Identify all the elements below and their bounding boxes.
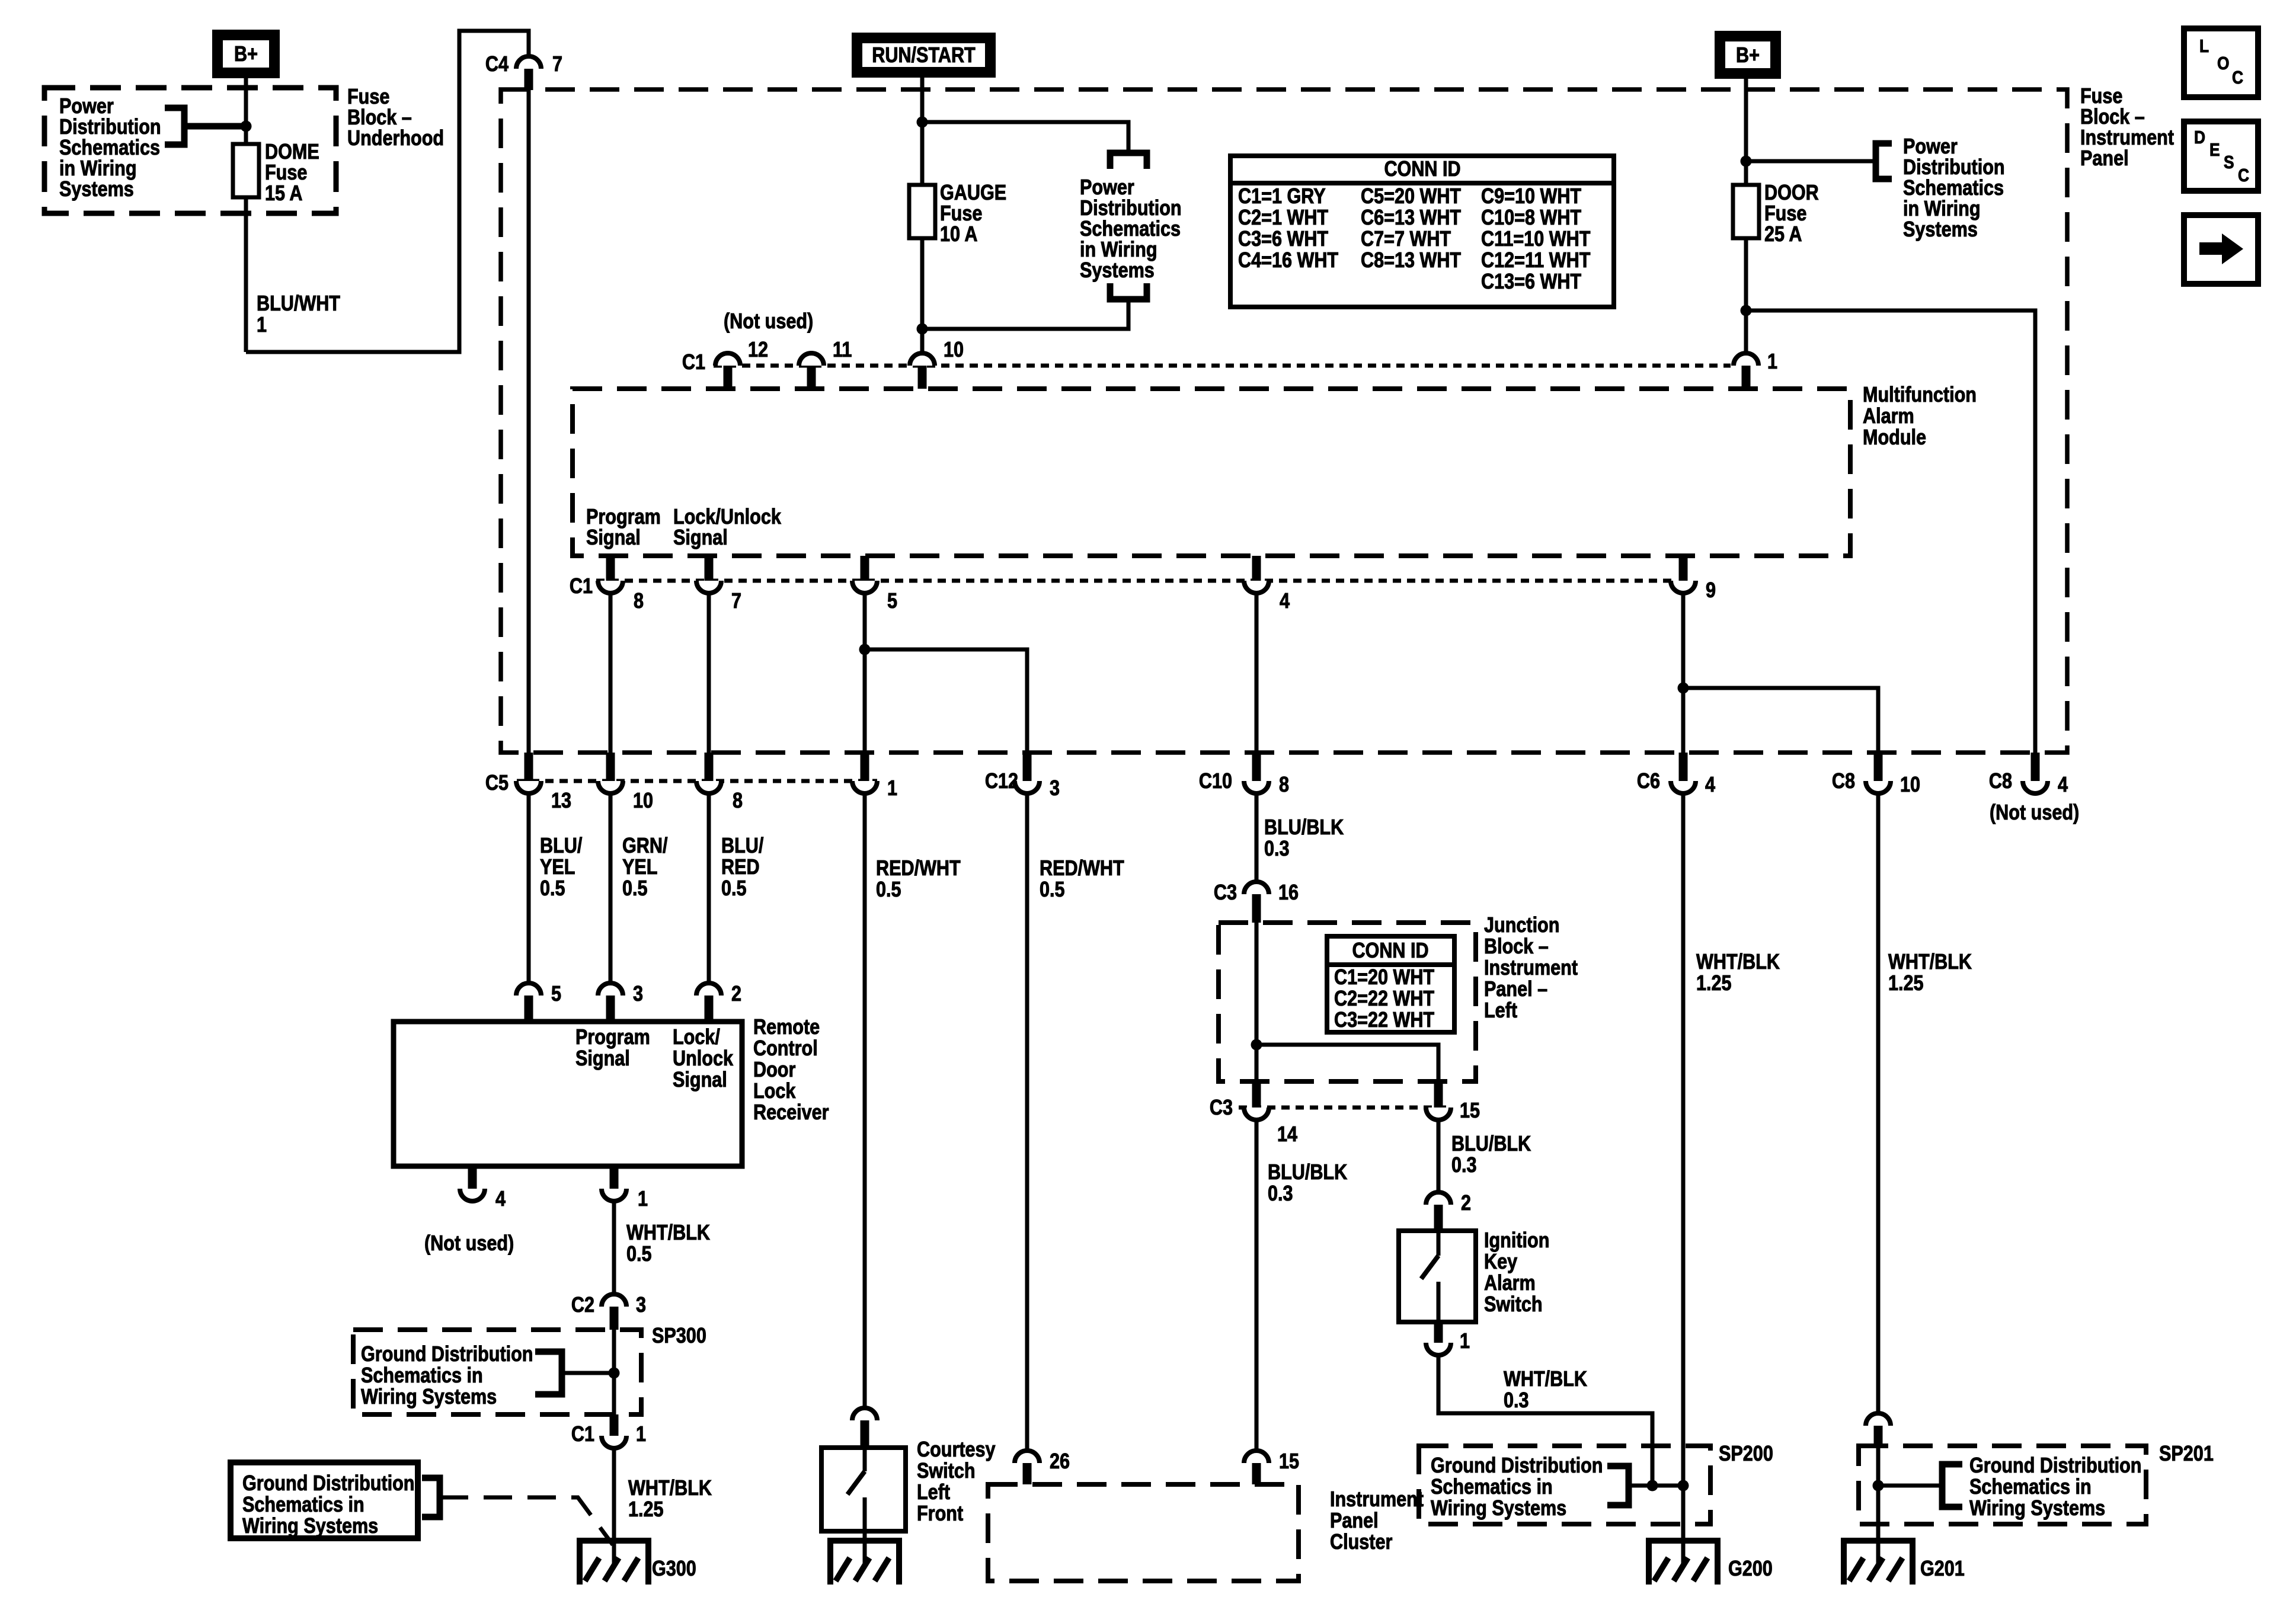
label wire BLU/RED 0.5 xyxy=(721,834,763,901)
svg-text:Fuse: Fuse xyxy=(940,202,982,226)
connector C1 pin 8 xyxy=(598,556,644,613)
svg-text:YEL: YEL xyxy=(622,856,657,879)
bracket to power distribution (door) xyxy=(1876,140,1892,183)
svg-text:1.25: 1.25 xyxy=(1888,972,1924,996)
wire C4 column down to C5-13 xyxy=(527,90,531,753)
svg-text:Wiring Systems: Wiring Systems xyxy=(1431,1497,1566,1521)
svg-text:10: 10 xyxy=(944,338,964,362)
svg-text:0.3: 0.3 xyxy=(1451,1154,1477,1177)
svg-text:Schematics in: Schematics in xyxy=(1431,1475,1553,1499)
svg-text:Instrument: Instrument xyxy=(1484,956,1578,980)
label wire BLU/BLK 0.3 (pin15) xyxy=(1451,1132,1531,1177)
svg-text:BLU/BLK: BLU/BLK xyxy=(1451,1132,1531,1156)
wire C10-8 to C3-16 xyxy=(1255,793,1259,883)
svg-text:Schematics: Schematics xyxy=(1080,217,1181,241)
svg-text:1: 1 xyxy=(887,777,897,801)
svg-text:0.5: 0.5 xyxy=(622,877,648,901)
box courtesy switch xyxy=(821,1448,906,1531)
svg-text:10 A: 10 A xyxy=(940,223,977,247)
connector C1 pin 5 xyxy=(852,556,897,613)
svg-text:YEL: YEL xyxy=(540,856,575,879)
connector C3 pin 16 xyxy=(1214,881,1299,923)
svg-text:C6=13 WHT: C6=13 WHT xyxy=(1361,206,1462,230)
svg-text:Key: Key xyxy=(1484,1250,1517,1274)
svg-text:5: 5 xyxy=(551,982,561,1006)
svg-text:C12=11 WHT: C12=11 WHT xyxy=(1481,249,1591,273)
svg-text:G300: G300 xyxy=(652,1557,696,1581)
svg-text:C8: C8 xyxy=(1989,770,2012,793)
svg-text:0.5: 0.5 xyxy=(540,877,565,901)
svg-text:S: S xyxy=(2224,152,2234,172)
dotted line connector C1 (module top) xyxy=(714,364,1731,368)
svg-text:1: 1 xyxy=(1460,1330,1470,1353)
svg-text:E: E xyxy=(2209,140,2220,160)
svg-text:C4: C4 xyxy=(485,53,509,76)
svg-text:Front: Front xyxy=(917,1502,963,1526)
svg-text:WHT/BLK: WHT/BLK xyxy=(628,1477,712,1500)
svg-text:Program: Program xyxy=(575,1026,650,1049)
wire receiver pin1 to C2-3 xyxy=(612,1201,616,1295)
svg-text:Distribution: Distribution xyxy=(59,116,161,139)
label courtesy switch left front xyxy=(917,1438,996,1526)
svg-text:RED/WHT: RED/WHT xyxy=(876,857,961,881)
box ground distribution schematics xyxy=(231,1462,418,1538)
svg-text:(Not used): (Not used) xyxy=(424,1232,514,1256)
svg-text:1: 1 xyxy=(636,1423,646,1446)
svg-text:Wiring Systems: Wiring Systems xyxy=(1969,1497,2105,1521)
table CONN ID (fuse block) xyxy=(1230,156,1614,307)
wire C6-4 to G200 xyxy=(1681,793,1686,1563)
wire bracket to SP200 junction xyxy=(1629,1484,1683,1488)
power node B+ (underhood) xyxy=(212,30,280,78)
label ground distribution (SP201) xyxy=(1969,1454,2142,1521)
ground courtesy switch xyxy=(830,1538,899,1585)
svg-text:SP200: SP200 xyxy=(1719,1442,1773,1466)
label wire BLU/BLK 0.3 (pin14) xyxy=(1268,1161,1347,1206)
svg-text:15 A: 15 A xyxy=(265,182,302,206)
svg-text:Lock: Lock xyxy=(753,1080,796,1103)
label junction block instrument panel left xyxy=(1484,914,1578,1023)
svg-text:BLU/: BLU/ xyxy=(721,834,763,858)
wire branch to C12 xyxy=(865,649,1027,753)
svg-text:Signal: Signal xyxy=(673,526,728,550)
label (Not used) C8 pin 4 xyxy=(1990,801,2079,825)
svg-text:Cluster: Cluster xyxy=(1330,1531,1392,1554)
connector C1 pin 4 xyxy=(1244,556,1290,613)
label lock/unlock signal (receiver) xyxy=(673,1026,733,1092)
label SP201 xyxy=(2159,1442,2214,1466)
icon DESC xyxy=(2184,121,2258,191)
svg-text:Door: Door xyxy=(753,1058,795,1082)
svg-text:C7=7 WHT: C7=7 WHT xyxy=(1361,228,1451,251)
svg-text:C3: C3 xyxy=(1210,1096,1233,1120)
wire C3-15 to ignition pin 2 xyxy=(1437,1120,1441,1193)
svg-text:4: 4 xyxy=(2058,773,2068,797)
svg-text:Ground Distribution: Ground Distribution xyxy=(1431,1454,1603,1478)
svg-text:Courtesy: Courtesy xyxy=(917,1438,996,1462)
svg-text:C1: C1 xyxy=(571,1423,594,1446)
wire C5-8 to receiver pin 2 xyxy=(707,793,711,985)
svg-text:0.5: 0.5 xyxy=(876,878,901,902)
dotted line connector C3 row xyxy=(1239,1106,1451,1110)
wire C5-13 to receiver pin 5 xyxy=(527,793,531,985)
svg-text:C9=10 WHT: C9=10 WHT xyxy=(1481,185,1582,209)
wire RUN/START down xyxy=(920,78,925,354)
label wire WHT/BLK 1.25 (C8) xyxy=(1888,950,1972,996)
svg-text:10: 10 xyxy=(1900,773,1920,797)
wire courtesy switch to ground xyxy=(863,1531,867,1563)
svg-text:C12: C12 xyxy=(985,770,1018,793)
svg-text:BLU/BLK: BLU/BLK xyxy=(1268,1161,1347,1185)
wire C12-3 to cluster pin 26 xyxy=(1025,793,1029,1452)
connector C1 pin 10 xyxy=(910,338,964,389)
svg-text:Receiver: Receiver xyxy=(753,1101,829,1125)
svg-text:Panel: Panel xyxy=(1330,1509,1379,1533)
connector receiver pin 3 xyxy=(598,982,643,1022)
svg-text:12: 12 xyxy=(748,338,768,362)
svg-text:RUN/START: RUN/START xyxy=(872,44,976,68)
label (Not used) pins 12 11 xyxy=(724,310,813,334)
junction pin5 branch xyxy=(859,644,871,655)
svg-text:Junction: Junction xyxy=(1484,914,1559,937)
svg-text:Ground Distribution: Ground Distribution xyxy=(242,1472,415,1496)
svg-text:25 A: 25 A xyxy=(1764,223,1802,247)
svg-text:1.25: 1.25 xyxy=(628,1498,664,1522)
svg-text:in Wiring: in Wiring xyxy=(59,157,137,181)
svg-text:Block –: Block – xyxy=(1484,935,1549,959)
svg-text:5: 5 xyxy=(887,590,897,613)
svg-text:Panel –: Panel – xyxy=(1484,978,1547,1001)
label lock/unlock signal (module) xyxy=(673,505,781,550)
label SP200 xyxy=(1719,1442,1773,1466)
svg-text:C8=13 WHT: C8=13 WHT xyxy=(1361,249,1462,273)
wire branch to power distribution bracket (door) xyxy=(1746,159,1874,164)
ground G300 xyxy=(580,1538,696,1585)
bracket to power distribution (underhood) xyxy=(165,105,184,148)
svg-text:3: 3 xyxy=(636,1294,646,1317)
label power distribution (underhood) xyxy=(59,95,161,201)
dashed box SP300 xyxy=(353,1330,641,1414)
svg-text:Underhood: Underhood xyxy=(347,127,444,151)
power node RUN/START xyxy=(852,33,996,78)
svg-text:C3: C3 xyxy=(1214,881,1237,905)
icon LOC xyxy=(2184,28,2258,97)
connector ignition pin 1 xyxy=(1426,1322,1470,1355)
connector C1 pin 7 xyxy=(696,556,741,613)
connector receiver pin 4 (not used) xyxy=(460,1166,506,1211)
svg-text:Control: Control xyxy=(753,1037,818,1061)
connector C5 pin 1 xyxy=(852,753,897,801)
svg-text:RED/WHT: RED/WHT xyxy=(1040,857,1124,881)
wire pin 9 down xyxy=(1681,593,1686,753)
wire C5-1 to courtesy switch xyxy=(863,793,867,1410)
wire SP201 to G201 xyxy=(1876,1446,1881,1563)
dashed box SP200 xyxy=(1419,1446,1710,1524)
wire branch to C8 pin 10 xyxy=(1683,688,1878,753)
svg-text:0.5: 0.5 xyxy=(626,1243,652,1266)
staple bottom (gauge power dist) xyxy=(1110,283,1147,303)
dotted line connector C1 (module bottom) xyxy=(596,579,1671,583)
svg-text:in Wiring: in Wiring xyxy=(1903,197,1981,221)
wire pin 7 down xyxy=(707,593,711,753)
svg-text:in Wiring: in Wiring xyxy=(1080,238,1157,262)
svg-text:Distribution: Distribution xyxy=(1080,197,1182,220)
svg-text:Panel: Panel xyxy=(2080,147,2129,171)
svg-text:Wiring Systems: Wiring Systems xyxy=(361,1385,497,1409)
svg-text:Program: Program xyxy=(586,505,661,529)
connector C12 pin 3 xyxy=(985,753,1060,801)
svg-text:2: 2 xyxy=(1461,1192,1471,1215)
svg-text:C11=10 WHT: C11=10 WHT xyxy=(1481,228,1591,251)
svg-text:0.5: 0.5 xyxy=(721,877,747,901)
svg-text:Signal: Signal xyxy=(575,1047,630,1071)
bracket ground distribution box xyxy=(422,1475,440,1521)
svg-text:Ground Distribution: Ground Distribution xyxy=(361,1343,533,1366)
svg-text:Distribution: Distribution xyxy=(1903,156,2005,180)
svg-text:Lock/Unlock: Lock/Unlock xyxy=(673,505,781,529)
svg-text:BLU/: BLU/ xyxy=(540,834,582,858)
svg-text:Instrument: Instrument xyxy=(2080,126,2174,150)
svg-text:C1=1 GRY: C1=1 GRY xyxy=(1238,185,1326,209)
svg-text:16: 16 xyxy=(1278,881,1299,905)
svg-text:Signal: Signal xyxy=(673,1068,727,1092)
svg-text:O: O xyxy=(2217,53,2229,73)
svg-text:C13=6 WHT: C13=6 WHT xyxy=(1481,270,1582,294)
svg-text:C6: C6 xyxy=(1637,770,1660,793)
svg-text:4: 4 xyxy=(1705,773,1715,797)
svg-text:C3=6 WHT: C3=6 WHT xyxy=(1238,228,1329,251)
svg-text:7: 7 xyxy=(552,53,562,76)
svg-text:BLU/WHT: BLU/WHT xyxy=(257,292,341,316)
wire dome fuse to C4 xyxy=(246,31,529,352)
wire B+ to door fuse xyxy=(1744,79,1748,354)
svg-text:15: 15 xyxy=(1279,1450,1299,1474)
svg-text:Module: Module xyxy=(1863,426,1926,450)
svg-text:Fuse: Fuse xyxy=(265,161,307,185)
wire B+ to dome fuse xyxy=(244,78,248,352)
label C1 (module bottom row) xyxy=(570,575,593,598)
connector C1 pin 1 (to G300) xyxy=(571,1414,646,1448)
svg-text:Schematics in: Schematics in xyxy=(1969,1475,2092,1499)
fuse DOOR 25A xyxy=(1733,185,1759,238)
svg-text:C4=16 WHT: C4=16 WHT xyxy=(1238,249,1339,273)
svg-text:B+: B+ xyxy=(1736,44,1760,68)
svg-text:CONN ID: CONN ID xyxy=(1352,939,1428,963)
svg-text:C2: C2 xyxy=(571,1294,594,1317)
svg-text:3: 3 xyxy=(1050,777,1060,801)
svg-text:3: 3 xyxy=(633,982,643,1006)
label DOME fuse xyxy=(265,140,319,206)
svg-text:Alarm: Alarm xyxy=(1484,1272,1536,1295)
label DOOR fuse xyxy=(1764,181,1819,247)
svg-text:8: 8 xyxy=(1279,773,1289,797)
wire pin 4 down xyxy=(1255,593,1259,753)
svg-text:0.3: 0.3 xyxy=(1264,837,1290,861)
svg-text:Fuse: Fuse xyxy=(2080,85,2122,108)
label remote control door lock receiver xyxy=(753,1016,829,1125)
svg-text:Schematics: Schematics xyxy=(1903,177,2004,200)
label wire GRN/YEL 0.5 xyxy=(622,834,667,901)
svg-text:Power: Power xyxy=(1903,135,1958,159)
svg-text:Lock/: Lock/ xyxy=(673,1026,720,1049)
power node B+ (instrument panel) xyxy=(1715,31,1781,79)
label GAUGE fuse xyxy=(940,181,1006,247)
svg-text:Ignition: Ignition xyxy=(1484,1229,1549,1253)
label wire WHT/BLK 1.25 (C6) xyxy=(1696,950,1780,996)
connector C4 pin 7 xyxy=(485,53,562,90)
connector receiver pin 1 xyxy=(602,1166,648,1211)
label ground distribution (SP300) xyxy=(361,1343,533,1409)
dashed box fuse block underhood xyxy=(44,88,336,213)
switch blade ignition xyxy=(1421,1231,1438,1322)
connector cluster pin 26 xyxy=(1015,1450,1070,1484)
svg-text:C5: C5 xyxy=(485,772,509,795)
connector C1 pin 11 (not used) xyxy=(799,338,852,389)
svg-text:11: 11 xyxy=(833,338,852,362)
connector C5 pin 8 xyxy=(696,753,743,813)
svg-text:Block –: Block – xyxy=(2080,105,2145,129)
staple top (gauge power dist) xyxy=(1110,150,1147,169)
svg-text:C: C xyxy=(2238,165,2249,185)
switch blade courtesy xyxy=(848,1448,865,1531)
label power distribution (gauge) xyxy=(1080,176,1182,283)
svg-text:26: 26 xyxy=(1050,1450,1070,1474)
svg-text:8: 8 xyxy=(733,789,743,813)
svg-text:B+: B+ xyxy=(234,43,258,66)
table CONN ID (junction block) xyxy=(1327,936,1454,1032)
svg-text:Instrument: Instrument xyxy=(1330,1488,1424,1512)
svg-text:1.25: 1.25 xyxy=(1696,972,1732,996)
svg-text:(Not used): (Not used) xyxy=(724,310,813,334)
svg-text:D: D xyxy=(2194,127,2205,148)
connector C1 pin 1 (B+ into module) xyxy=(1734,350,1777,389)
svg-text:SP201: SP201 xyxy=(2159,1442,2214,1466)
junction SP300 xyxy=(609,1368,620,1379)
dashed pointer to G300 wire xyxy=(440,1497,613,1545)
svg-text:0.3: 0.3 xyxy=(1504,1389,1529,1413)
svg-text:WHT/BLK: WHT/BLK xyxy=(626,1221,710,1245)
svg-text:WHT/BLK: WHT/BLK xyxy=(1504,1368,1587,1391)
connector C5 pin 13 xyxy=(516,753,571,813)
wire C5-10 to receiver pin 3 xyxy=(609,793,613,985)
label wire RED/WHT 0.5 (left) xyxy=(876,857,961,902)
svg-text:Alarm: Alarm xyxy=(1863,405,1914,428)
bracket SP200 xyxy=(1607,1463,1629,1509)
svg-text:1: 1 xyxy=(638,1188,648,1211)
wire branch to power distribution staple xyxy=(922,122,1128,151)
wire C1-1 to G300 xyxy=(612,1448,616,1563)
label fuse block underhood xyxy=(347,85,444,151)
wire staple to gauge wire xyxy=(922,299,1128,329)
label program signal (module) xyxy=(586,505,661,550)
svg-text:Systems: Systems xyxy=(59,178,134,201)
svg-text:4: 4 xyxy=(495,1188,506,1211)
svg-text:Left: Left xyxy=(1484,999,1517,1023)
svg-text:C2=22 WHT: C2=22 WHT xyxy=(1334,987,1435,1011)
label wire WHT/BLK 0.3 xyxy=(1504,1368,1587,1413)
label ignition key alarm switch xyxy=(1484,1229,1549,1317)
label (Not used) receiver pin 4 xyxy=(424,1232,514,1256)
svg-text:C: C xyxy=(2232,68,2243,88)
svg-text:Signal: Signal xyxy=(586,526,641,550)
svg-text:15: 15 xyxy=(1460,1099,1480,1123)
svg-text:GAUGE: GAUGE xyxy=(940,181,1006,205)
connector C8 pin 4 (not used) xyxy=(1989,753,2068,797)
svg-text:C10: C10 xyxy=(1199,770,1232,793)
junction gauge bottom xyxy=(917,324,928,335)
svg-text:7: 7 xyxy=(731,590,741,613)
svg-text:WHT/BLK: WHT/BLK xyxy=(1696,950,1780,974)
wire junction block internal xyxy=(1255,923,1259,1081)
svg-text:9: 9 xyxy=(1706,579,1716,603)
svg-text:Switch: Switch xyxy=(1484,1293,1543,1317)
dashed box SP201 xyxy=(1859,1446,2146,1524)
connector C1 pin 12 (not used) xyxy=(715,338,768,389)
svg-text:Ground Distribution: Ground Distribution xyxy=(1969,1454,2142,1478)
connector C3 pin 15 xyxy=(1426,1081,1480,1123)
junction SP200 a xyxy=(1647,1480,1658,1491)
connector C1 pin 9 xyxy=(1671,556,1716,603)
svg-text:Wiring Systems: Wiring Systems xyxy=(242,1515,378,1538)
svg-text:8: 8 xyxy=(634,590,644,613)
icon arrow xyxy=(2184,215,2258,284)
wire pin 5 down xyxy=(863,593,867,753)
wire door fuse to C8 pin 4 xyxy=(1746,311,2035,753)
svg-text:13: 13 xyxy=(551,789,571,813)
label ground distribution (SP200) xyxy=(1431,1454,1603,1521)
fuse DOME 15A xyxy=(233,144,259,197)
wire C8-10 down xyxy=(1876,793,1881,1415)
connector C5 pin 10 xyxy=(598,753,653,813)
svg-text:Schematics: Schematics xyxy=(59,136,160,160)
svg-text:4: 4 xyxy=(1280,590,1290,613)
connector C2 pin 3 xyxy=(571,1294,646,1330)
svg-text:C10=8 WHT: C10=8 WHT xyxy=(1481,206,1582,230)
svg-text:Schematics in: Schematics in xyxy=(242,1493,364,1517)
connector courtesy switch xyxy=(852,1408,877,1448)
dashed box multifunction alarm module xyxy=(573,389,1850,556)
wire ignition pin 1 to SP200 xyxy=(1438,1355,1652,1486)
junction dome branch xyxy=(241,121,252,132)
wire bracket to dome fuse wire xyxy=(184,123,246,130)
box ignition key alarm switch xyxy=(1399,1231,1476,1322)
label wire WHT/BLK 0.5 xyxy=(626,1221,710,1266)
junction SP200 b xyxy=(1678,1480,1689,1491)
dashed box instrument panel cluster xyxy=(988,1484,1299,1581)
label program signal (receiver) xyxy=(575,1026,650,1071)
svg-text:1: 1 xyxy=(1767,350,1777,374)
label ground distribution schematics xyxy=(242,1472,415,1538)
wire JB branch to pin 15 xyxy=(1256,1045,1438,1081)
junction pin9 branch xyxy=(1678,683,1689,694)
junction door top xyxy=(1741,156,1752,167)
svg-text:RED: RED xyxy=(721,856,760,879)
connector C10 pin 8 xyxy=(1199,753,1289,797)
label wire RED/WHT 0.5 (right) xyxy=(1040,857,1124,902)
connector C8 pin 10 xyxy=(1832,753,1920,797)
svg-text:0.5: 0.5 xyxy=(1040,878,1065,902)
svg-text:BLU/BLK: BLU/BLK xyxy=(1264,816,1344,840)
svg-text:C3=22 WHT: C3=22 WHT xyxy=(1334,1009,1435,1032)
svg-text:Multifunction: Multifunction xyxy=(1863,383,1977,407)
label SP300 xyxy=(652,1324,706,1348)
dotted line connector C5 xyxy=(517,779,877,783)
label power distribution (door) xyxy=(1903,135,2005,242)
svg-text:0.3: 0.3 xyxy=(1268,1182,1293,1206)
svg-text:DOME: DOME xyxy=(265,140,319,164)
junction SP201 xyxy=(1873,1480,1884,1491)
ground G200 xyxy=(1649,1538,1773,1585)
